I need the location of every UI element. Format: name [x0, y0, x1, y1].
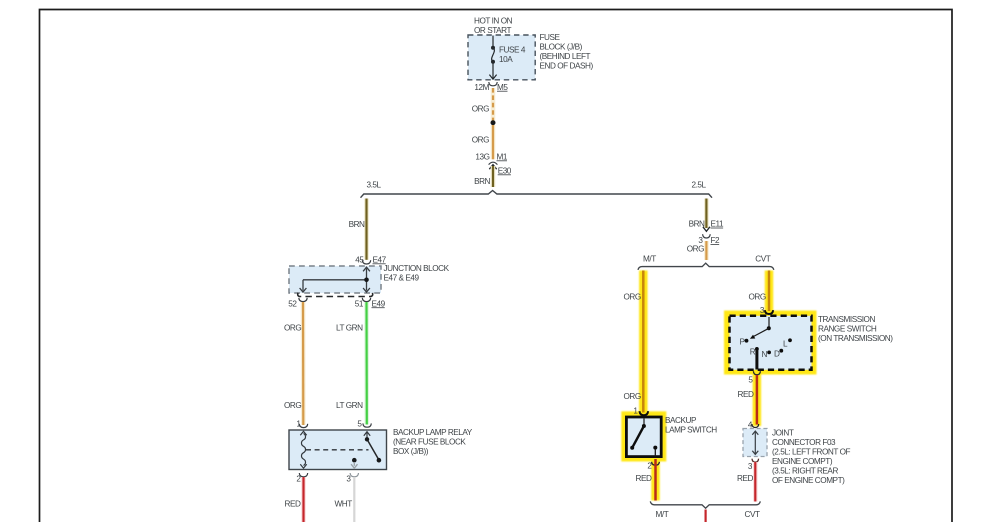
connector cup relay pin 2	[299, 473, 307, 477]
fuse block J/B box	[468, 35, 535, 80]
text HOT IN ON / OR START	[474, 17, 513, 35]
svg-text:(ON TRANSMISSION): (ON TRANSMISSION)	[818, 334, 893, 343]
svg-text:BLOCK (J/B): BLOCK (J/B)	[540, 43, 583, 52]
svg-text:E11: E11	[711, 220, 725, 229]
wire ORG M/T branch (highlighted core)	[642, 271, 645, 413]
svg-text:ENGINE COMPT): ENGINE COMPT)	[772, 457, 833, 466]
relay coil	[300, 431, 306, 468]
svg-text:ORG: ORG	[624, 293, 641, 302]
bracket merge M/T CVT bottom	[650, 501, 760, 508]
svg-text:ORG: ORG	[624, 392, 641, 401]
wire ORG (F2 to M/T CVT split)	[704, 241, 709, 260]
svg-text:M/T: M/T	[643, 255, 656, 264]
TRS selector contacts	[745, 317, 792, 370]
svg-text:FUSE: FUSE	[540, 33, 561, 42]
connector cup pin 51	[362, 298, 370, 302]
svg-text:3.5L: 3.5L	[367, 180, 382, 189]
wire ORG pin52 to relay pin1	[301, 302, 306, 425]
joint connector internal double arrow	[752, 431, 758, 454]
svg-text:3: 3	[748, 462, 753, 471]
svg-text:R: R	[750, 347, 756, 356]
svg-text:BRN: BRN	[689, 220, 705, 229]
svg-text:ORG: ORG	[749, 293, 766, 302]
transmission range switch box	[730, 316, 812, 370]
backup lamp relay box	[289, 430, 387, 470]
relay dashed actuator line	[306, 449, 369, 451]
svg-text:2.5L: 2.5L	[692, 180, 707, 189]
svg-text:HOT IN ON: HOT IN ON	[474, 17, 513, 26]
svg-text:JOINT: JOINT	[772, 429, 794, 438]
svg-text:10A: 10A	[499, 55, 513, 64]
svg-text:TRANSMISSION: TRANSMISSION	[818, 315, 875, 324]
wire BRN left branch	[364, 199, 369, 260]
label TRANSMISSION RANGE SWITCH (ON TRANSMISSION)	[818, 315, 893, 343]
svg-text:WHT: WHT	[335, 500, 353, 509]
svg-text:ORG: ORG	[284, 401, 301, 410]
labels P R N D L	[739, 338, 788, 360]
svg-text:ORG: ORG	[284, 323, 301, 332]
label BRN / E11	[689, 220, 724, 229]
svg-text:RED: RED	[636, 474, 652, 483]
svg-text:BRN: BRN	[349, 220, 365, 229]
svg-text:RANGE SWITCH: RANGE SWITCH	[818, 324, 877, 333]
svg-text:ORG: ORG	[472, 105, 489, 114]
svg-text:RED: RED	[738, 390, 754, 399]
label 12M / M5	[474, 83, 508, 92]
label 51 / E49	[355, 299, 386, 308]
label FUSE 4 / 10A	[499, 45, 526, 64]
wire RED TRS to joint connector (highlighted core)	[756, 375, 759, 425]
backup lamp switch box	[626, 417, 661, 457]
wire WHT relay pin3 down	[353, 477, 355, 522]
svg-text:CVT: CVT	[755, 255, 770, 264]
junction block internal wiring	[300, 267, 370, 292]
svg-text:52: 52	[288, 299, 297, 308]
wire ORG CVT branch (highlighted core)	[768, 271, 771, 312]
wire ORG dashed (fuse to splice)	[491, 88, 496, 121]
svg-text:M5: M5	[497, 83, 508, 92]
connector arrow E11 (down)	[703, 227, 710, 232]
svg-text:BACKUP LAMP RELAY: BACKUP LAMP RELAY	[393, 428, 473, 437]
svg-text:M/T: M/T	[656, 510, 669, 519]
svg-text:(NEAR FUSE BLOCK: (NEAR FUSE BLOCK	[393, 438, 466, 447]
joint connector F03 box	[743, 429, 767, 457]
svg-text:OR START: OR START	[474, 26, 511, 35]
label BACKUP LAMP SWITCH	[665, 416, 717, 435]
svg-text:(BEHIND LEFT: (BEHIND LEFT	[540, 52, 591, 61]
connector E49 dashed line	[298, 293, 373, 297]
svg-text:JUNCTION BLOCK: JUNCTION BLOCK	[384, 264, 450, 273]
wire RED relay pin2 down	[301, 477, 306, 522]
svg-text:E30: E30	[498, 166, 512, 175]
wire RED backup lamp switch down (highlighted core)	[654, 459, 657, 501]
svg-text:RED: RED	[737, 474, 753, 483]
bus split 3.5L / 2.5L	[361, 191, 713, 198]
connector cup backup lamp switch pin 1	[640, 411, 649, 415]
junction block internal splice dot	[364, 278, 369, 283]
label BACKUP LAMP RELAY (NEAR FUSE BLOCK BOX (J/B))	[393, 428, 473, 456]
connector cup relay pin 5	[363, 423, 371, 427]
connector cup relay pin 3	[350, 473, 358, 477]
svg-text:M1: M1	[497, 152, 508, 161]
fuse FUSE 4 10A symbol	[489, 36, 496, 80]
svg-text:E47 & E49: E47 & E49	[384, 273, 420, 282]
wire BRN (E30 to bus)	[491, 166, 496, 187]
svg-text:F2: F2	[711, 236, 721, 245]
svg-text:5: 5	[357, 419, 362, 428]
svg-text:(2.5L: LEFT FRONT OF: (2.5L: LEFT FRONT OF	[772, 448, 850, 457]
splice junction dot	[491, 120, 496, 125]
svg-text:5: 5	[748, 375, 753, 384]
svg-text:ORG: ORG	[687, 245, 704, 254]
svg-text:12M: 12M	[474, 83, 489, 92]
wire BRN right branch	[704, 199, 709, 229]
label JUNCTION BLOCK E47 & E49	[384, 264, 450, 283]
wire RED merged down	[704, 510, 706, 522]
svg-text:LT GRN: LT GRN	[336, 401, 363, 410]
connector cup joint connector pin 4	[752, 424, 759, 428]
bracket split M/T CVT	[638, 263, 774, 270]
svg-text:13G: 13G	[475, 152, 489, 161]
svg-text:CONNECTOR F03: CONNECTOR F03	[772, 438, 836, 447]
highlight trace ORG wire M/T branch (yellow)	[621, 271, 816, 501]
svg-text:(3.5L: RIGHT REAR: (3.5L: RIGHT REAR	[772, 467, 838, 476]
wire RED joint connector down	[753, 462, 758, 502]
svg-text:FUSE 4: FUSE 4	[499, 45, 526, 54]
svg-text:OF ENGINE COMPT): OF ENGINE COMPT)	[772, 476, 845, 485]
svg-text:CVT: CVT	[745, 510, 760, 519]
svg-text:END OF DASH): END OF DASH)	[540, 62, 594, 71]
label 45 / E47	[355, 255, 386, 264]
highlight trace RED wire TRS to joint connector	[753, 373, 762, 426]
label FUSE BLOCK (J/B) (BEHIND LEFT END OF DASH)	[540, 33, 594, 71]
label 13G / M1	[475, 152, 508, 161]
wire LT GRN pin51 to relay pin5	[364, 302, 369, 425]
connector cap 13G/M1	[489, 162, 498, 164]
svg-text:RED: RED	[285, 500, 301, 509]
highlight trace RED wire below backup lamp switch	[651, 459, 660, 501]
connector cup backup lamp switch pin 2	[652, 462, 660, 465]
connector cup TRS pin 5	[753, 371, 760, 375]
connector cup 45/E47	[362, 260, 370, 264]
svg-text:BRN: BRN	[474, 177, 490, 186]
relay switch contacts	[351, 432, 381, 469]
svg-text:51: 51	[355, 299, 364, 308]
svg-text:BACKUP: BACKUP	[665, 416, 697, 425]
connector arrow E30	[489, 165, 496, 170]
connector cup joint connector pin 3	[752, 459, 759, 463]
connector cup pin 52	[299, 298, 307, 302]
connector cup F2	[703, 234, 711, 238]
highlight ring backup lamp switch	[621, 411, 666, 461]
svg-text:BOX (J/B)): BOX (J/B))	[393, 447, 429, 456]
junction block box E47/E49	[289, 266, 381, 293]
highlight ring transmission range switch	[724, 311, 817, 375]
connector cup TRS pin 3	[765, 310, 773, 314]
svg-text:D: D	[774, 350, 780, 359]
label 3 / F2	[698, 236, 720, 245]
connector cup relay pin 1	[299, 424, 307, 428]
svg-text:LT GRN: LT GRN	[336, 323, 363, 332]
svg-text:E49: E49	[372, 299, 386, 308]
highlight trace ORG wire CVT branch	[765, 271, 774, 314]
connector cup 12M/M5	[489, 82, 497, 86]
svg-text:ORG: ORG	[472, 136, 489, 145]
backup lamp switch contacts	[630, 419, 657, 457]
svg-text:N: N	[762, 350, 768, 359]
wire ORG solid (splice to 13G)	[491, 125, 496, 159]
svg-text:LAMP SWITCH: LAMP SWITCH	[665, 426, 717, 435]
label JOINT CONNECTOR F03	[772, 429, 850, 486]
